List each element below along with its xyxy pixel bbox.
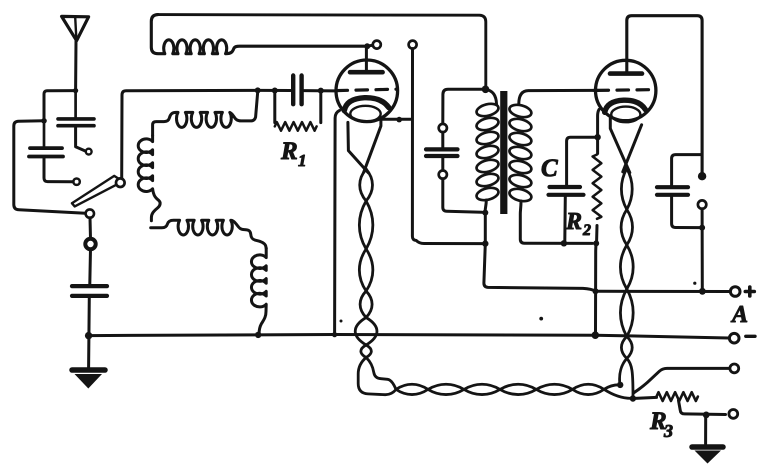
wire plus line right bbox=[599, 290, 730, 293]
contact circle upper (from antenna cap) bbox=[86, 149, 92, 155]
tube V2 plate bbox=[610, 71, 642, 76]
ground symbol left bbox=[72, 367, 105, 373]
contact circle lower (from left loop) bbox=[86, 209, 94, 217]
node jack lower junction bbox=[699, 225, 705, 231]
wire C4 bottom to primary bottom bbox=[443, 179, 482, 213]
node antenna junction bbox=[73, 88, 78, 93]
wire left loop bbox=[14, 121, 86, 213]
capacitor C4 top circle bbox=[439, 124, 447, 132]
wire top loop + coil L1 bbox=[158, 15, 486, 87]
node C bottom junction bbox=[561, 240, 567, 246]
twisted pair horizontal strand A bbox=[396, 384, 604, 394]
twisted pair tube2 bottom ends bbox=[620, 359, 627, 384]
capacitor C4 bbox=[441, 132, 444, 147]
tube V1 envelope bbox=[336, 60, 398, 122]
wire antenna branch left bbox=[44, 91, 76, 119]
tube V2 bottom ellipse bbox=[611, 107, 640, 123]
terminal plus bbox=[730, 287, 740, 297]
wire minus bus bbox=[89, 335, 729, 339]
contact circle middle (from C2) bbox=[73, 179, 79, 185]
capacitor phones bbox=[657, 185, 688, 189]
wire switch riser to grid line bbox=[122, 90, 255, 178]
transformer primary winding bbox=[475, 102, 499, 118]
wire chain to R3 bbox=[633, 397, 657, 398]
twisted pair horizontal strand B bbox=[396, 384, 604, 394]
tube V1 filament arc bbox=[344, 98, 389, 111]
wire R3 tap bbox=[679, 401, 726, 415]
wire filament V right bbox=[364, 119, 381, 172]
node filament lead blob bbox=[396, 117, 402, 123]
tube V1 plate lead bbox=[365, 46, 368, 70]
svg-text:3: 3 bbox=[663, 421, 673, 441]
ground symbol right bbox=[692, 444, 723, 450]
wire terminal 2 drop bbox=[412, 49, 482, 244]
tube V1 bottom ellipse bbox=[350, 106, 380, 122]
wire grid2 horizontal bbox=[443, 89, 486, 124]
coil L2 bbox=[153, 92, 258, 136]
tube V1 plate bbox=[350, 70, 383, 75]
speck 1 bbox=[693, 282, 696, 285]
node chain/R3 junction bbox=[630, 395, 636, 401]
wire filament lead to terminal line bbox=[381, 118, 411, 121]
tube V2 envelope bbox=[596, 60, 656, 120]
switch pivot circle bbox=[116, 178, 125, 187]
node bus-left junction bbox=[85, 332, 92, 339]
wire grid2 lead bbox=[594, 89, 599, 92]
wire cathode-left return to bus bbox=[335, 111, 340, 335]
wire to ground right bbox=[704, 415, 707, 444]
phone jack lower circle bbox=[698, 200, 706, 208]
svg-text:1: 1 bbox=[298, 151, 307, 170]
twisted pair right end to junctions bbox=[604, 385, 619, 390]
wire terminal-3 bbox=[634, 368, 730, 393]
switch blade bbox=[72, 176, 123, 207]
wire antenna lead down bbox=[74, 41, 77, 91]
svg-text:2: 2 bbox=[582, 222, 591, 239]
twisted pair tube1 filament strand B bbox=[359, 169, 377, 358]
wire filament V2 right bbox=[623, 125, 642, 172]
node chain/hchain junction bbox=[617, 382, 623, 388]
terminal 3 bbox=[730, 364, 739, 373]
capacitor C4 bottom circle bbox=[439, 171, 447, 179]
node R1 right junction bbox=[318, 88, 324, 94]
wire primary junction down bbox=[484, 213, 487, 244]
capacitor grid C1 plates bbox=[291, 76, 295, 105]
wire capacitor to ground bus bbox=[87, 296, 91, 368]
twisted pair tube2 filament strand A bbox=[620, 169, 633, 359]
wire primary top lead bbox=[486, 89, 497, 104]
twisted pair corner into horizontal run bbox=[358, 358, 396, 395]
wire C branch bbox=[567, 137, 598, 185]
resistor R2 bbox=[593, 155, 602, 219]
node R3 tap junction bbox=[703, 412, 710, 419]
coil L4 bbox=[151, 220, 267, 248]
tube V2 filament arc bbox=[605, 100, 646, 112]
wire cap to tube1 grid bbox=[304, 89, 335, 92]
wire to terminal bbox=[370, 44, 374, 48]
coil L3 bbox=[138, 136, 160, 221]
node phone jack top (filled) bbox=[698, 172, 706, 180]
wire tube2 left return bbox=[598, 110, 599, 154]
node y244 junction bbox=[482, 240, 488, 246]
transformer core bbox=[500, 91, 507, 214]
wire grid line segment bbox=[261, 89, 291, 92]
node grid-line junction L2 bbox=[255, 87, 261, 93]
tube V2 grid (dashed) bbox=[597, 88, 654, 92]
terminal 4 bbox=[729, 410, 738, 419]
node bus L5 junction bbox=[255, 332, 261, 338]
svg-text:A: A bbox=[730, 302, 748, 328]
tube V2 plate lead + phone loop bbox=[627, 16, 702, 173]
grommet ring bbox=[85, 239, 95, 249]
wire down to bus bbox=[594, 243, 598, 333]
node plus-line junction bbox=[593, 288, 599, 294]
svg-text:C: C bbox=[541, 155, 558, 182]
wire junction down to plus line bbox=[484, 244, 596, 292]
node plate junction tube1 bbox=[364, 43, 370, 49]
node C/R2 junction bbox=[594, 134, 600, 140]
wire contact to grommet bbox=[89, 218, 93, 239]
node bus junction right bbox=[592, 331, 600, 339]
speck 2 bbox=[539, 317, 543, 321]
coil L5 bbox=[251, 248, 266, 334]
label plus bbox=[745, 290, 754, 294]
speck 3 bbox=[340, 320, 343, 323]
wire secondary top lead bbox=[519, 90, 594, 104]
node top-wire/transformer junction bbox=[482, 86, 490, 94]
transformer secondary winding bbox=[508, 103, 532, 119]
wire jack to plus line bbox=[701, 209, 704, 290]
node left-loop junction bbox=[41, 118, 47, 124]
node R1 left junction bbox=[272, 88, 278, 94]
node primary bottom junction bbox=[482, 210, 488, 216]
terminal circle 2 bbox=[409, 41, 417, 49]
wire primary bottom lead bbox=[485, 200, 486, 212]
wire R2 bottom bbox=[595, 226, 598, 242]
node R2 bottom junction bbox=[593, 240, 599, 246]
wire grommet to capacitor bbox=[88, 249, 92, 284]
capacitor C bbox=[550, 185, 581, 189]
twisted pair tube1 filament strand A bbox=[355, 169, 373, 358]
resistor R3 bbox=[657, 392, 698, 401]
wire filament V left bbox=[348, 122, 368, 172]
label minus bbox=[746, 335, 755, 338]
svg-text:R: R bbox=[565, 209, 582, 235]
svg-text:R: R bbox=[280, 138, 298, 165]
node bus return junction bbox=[332, 332, 337, 337]
tube V1 grid (dashed) bbox=[336, 89, 396, 90]
node plus junction bbox=[699, 288, 706, 295]
terminal circle 1 bbox=[373, 41, 381, 49]
capacitor shunt C2 bbox=[30, 146, 62, 150]
antenna bbox=[62, 16, 89, 40]
wire secondary bottom lead bbox=[520, 201, 592, 243]
capacitor to ground C3 bbox=[72, 284, 107, 288]
terminal minus bbox=[729, 333, 739, 343]
twisted pair tube2 filament strand B bbox=[620, 169, 633, 359]
wire filament V2 left bbox=[610, 118, 630, 173]
capacitor antenna series bbox=[58, 117, 94, 121]
resistor R1 bbox=[273, 91, 276, 123]
